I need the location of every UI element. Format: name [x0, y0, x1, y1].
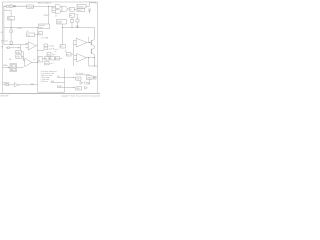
- wire vref out: [17, 66, 24, 69]
- wire: [38, 50, 45, 52]
- wire pwm down: [62, 24, 64, 45]
- svg-text:drv: drv: [70, 15, 72, 17]
- schmitt buffer: [15, 83, 18, 87]
- uvlo box: [77, 9, 85, 12]
- svg-text:FB: FB: [9, 59, 11, 61]
- control logic box: [39, 24, 50, 29]
- svg-text:SCL: SCL: [57, 76, 60, 78]
- svg-text:FB−: FB−: [1, 47, 4, 49]
- br top rail: [76, 74, 91, 76]
- pin bus vertical: [64, 69, 66, 93]
- node J4: [62, 27, 63, 28]
- wire to gates: [34, 5, 56, 7]
- oscillator box: [27, 33, 35, 37]
- transistor Q1: [90, 40, 92, 45]
- svg-text:I LIMIT: I LIMIT: [17, 28, 22, 30]
- current source I1: [10, 5, 13, 8]
- tick component: [8, 47, 10, 49]
- svg-text:VOS trim: VOS trim: [1, 39, 8, 42]
- pin stubs right: [65, 78, 75, 88]
- svg-text:Bandgap: Bandgap: [27, 6, 34, 8]
- gate input bus: [52, 6, 56, 12]
- wire bias tap: [4, 10, 11, 16]
- wire U1 out: [36, 45, 38, 47]
- svg-text:R fb1: R fb1: [16, 52, 20, 54]
- bias block box: [8, 17, 15, 21]
- wire feedback down: [88, 58, 90, 66]
- pwm box: [57, 20, 67, 25]
- latch box: [70, 7, 75, 11]
- svg-text:mod: mod: [56, 58, 59, 60]
- svg-text:Charge: Charge: [57, 21, 62, 23]
- svg-text:clk sel 8M: clk sel 8M: [41, 37, 49, 39]
- svg-text:pump: pump: [57, 23, 61, 25]
- footer rule: [0, 92, 100, 94]
- svg-text:Block Diagram: Block Diagram: [38, 3, 51, 5]
- svg-text:Copyright © 2016, Texas Instru: Copyright © 2016, Texas Instruments Inco…: [61, 95, 100, 98]
- wire row: [43, 58, 63, 63]
- node J3: [11, 44, 12, 45]
- wire left rail: [4, 27, 37, 29]
- op-amp U3: [77, 54, 87, 62]
- wire U3 out: [87, 57, 95, 59]
- wire U4 out: [32, 61, 38, 63]
- br box 1: [87, 76, 93, 80]
- wire down arrow: [88, 79, 90, 83]
- two fb boxes: [16, 50, 21, 53]
- soft start box: [60, 45, 66, 49]
- arrowhead: [8, 67, 10, 68]
- svg-text:UVLO: UVLO: [78, 10, 83, 12]
- comp boxes column: [44, 44, 48, 47]
- left input vertical: [3, 6, 5, 44]
- node J12: [18, 47, 19, 48]
- svg-text:SS: SS: [60, 46, 62, 48]
- wire G2 down: [71, 17, 73, 19]
- diode D3: [80, 81, 83, 84]
- svg-text:Pwr Good: Pwr Good: [76, 73, 83, 75]
- small box B5: [47, 53, 51, 56]
- node J11: [72, 27, 73, 28]
- battery symbol: [93, 76, 96, 79]
- wire: [71, 53, 74, 55]
- svg-text:VIN+: VIN+: [3, 6, 7, 8]
- top rail to output: [63, 27, 95, 29]
- mid boxes row: [45, 57, 50, 60]
- IC left edge: [37, 29, 39, 93]
- gate G2: [56, 9, 61, 13]
- bottom right rail: [89, 65, 98, 67]
- svg-text:comp A: comp A: [48, 44, 55, 47]
- sense box right: [76, 19, 79, 22]
- op-amp U1: [28, 42, 36, 50]
- IC bottom edge: [38, 91, 65, 93]
- svg-text:sel 2: sel 2: [50, 63, 53, 65]
- wire down to control box: [48, 6, 50, 24]
- vref box: [10, 64, 17, 72]
- wire feedback stub: [88, 37, 90, 43]
- vref input wire: [3, 67, 11, 69]
- svg-text:bias: bias: [76, 14, 79, 16]
- wire: [77, 22, 79, 28]
- fb input wire: [6, 47, 21, 49]
- node J1: [48, 6, 49, 7]
- gate G1: [56, 4, 61, 8]
- svg-text:Thermal: Thermal: [78, 6, 84, 8]
- current source I2: [9, 30, 12, 33]
- svg-text:– Ref mux: – Ref mux: [40, 81, 48, 83]
- ref box on edge: [38, 57, 43, 62]
- wire: [10, 20, 12, 29]
- node J5: [77, 27, 78, 28]
- labels: [0, 3, 100, 98]
- svg-text:ea: ea: [33, 59, 35, 61]
- svg-text:OUT: OUT: [76, 78, 79, 80]
- svg-text:shdn: shdn: [31, 83, 35, 85]
- op-amp U2: [76, 38, 87, 47]
- arrowheads: [73, 77, 75, 88]
- svg-text:clk: clk: [27, 31, 29, 33]
- node J9: [94, 66, 95, 67]
- IC right edge: [73, 40, 75, 66]
- border frame: [3, 2, 98, 93]
- resistor R3: [6, 84, 9, 86]
- node J10: [37, 62, 38, 63]
- transistor Q2: [90, 49, 92, 54]
- wire: [16, 5, 27, 7]
- wire emitter chain: [94, 46, 96, 66]
- wire bias right: [77, 15, 79, 19]
- wire input rail top-left: [5, 5, 27, 7]
- svg-text:mux: mux: [45, 63, 48, 65]
- node J13: [36, 33, 39, 36]
- ground bus: [4, 44, 28, 46]
- svg-text:logic: logic: [39, 27, 43, 29]
- node J6: [89, 42, 90, 43]
- thermal box: [77, 5, 86, 9]
- arrowhead into control box: [37, 27, 39, 28]
- wire: [71, 23, 73, 28]
- driver box: [70, 14, 75, 18]
- svg-text:C load: C load: [84, 84, 89, 86]
- diode D4: [85, 86, 88, 89]
- wire: [74, 8, 77, 10]
- zener D2: [88, 9, 90, 11]
- enable wire: [3, 84, 15, 86]
- node J2: [11, 27, 12, 28]
- svg-text:ENABLE: ENABLE: [3, 82, 11, 85]
- wire gates: [60, 7, 61, 12]
- svg-text:osc: osc: [47, 54, 50, 56]
- wire osc out: [35, 34, 38, 36]
- box B9: [66, 53, 71, 56]
- block reference box: [27, 5, 34, 8]
- op-amp U4: [25, 58, 32, 66]
- wires to U4: [22, 52, 25, 61]
- svg-text:VREF: VREF: [3, 65, 8, 67]
- svg-text:ph: ph: [55, 16, 57, 18]
- svg-text:sync: sync: [52, 54, 55, 56]
- wire: [19, 84, 38, 86]
- svg-text:R load: R load: [84, 82, 89, 84]
- resistor R2: [10, 42, 12, 45]
- sense box: [71, 20, 74, 23]
- resistor R1: [6, 5, 9, 7]
- node J8: [88, 57, 89, 58]
- trim box: [39, 32, 43, 35]
- wire U2 out: [87, 42, 92, 44]
- node J7: [94, 57, 95, 58]
- br box 2: [76, 77, 81, 80]
- svg-text:R fb2: R fb2: [16, 56, 20, 58]
- gate G3: [62, 6, 67, 11]
- mid box row2: [45, 62, 50, 65]
- wire collector: [94, 28, 96, 40]
- wire to vdd: [86, 3, 96, 6]
- diode D1: [14, 5, 16, 7]
- pin wires: [51, 78, 65, 88]
- wire branch: [20, 45, 22, 51]
- svg-text:VREG: VREG: [44, 15, 49, 17]
- svg-text:Osc: Osc: [27, 35, 30, 37]
- br box 3: [76, 87, 82, 90]
- svg-text:SBOS789: SBOS789: [0, 95, 8, 97]
- svg-text:dig: dig: [45, 58, 47, 60]
- wire: [10, 33, 12, 42]
- wire: [67, 8, 69, 10]
